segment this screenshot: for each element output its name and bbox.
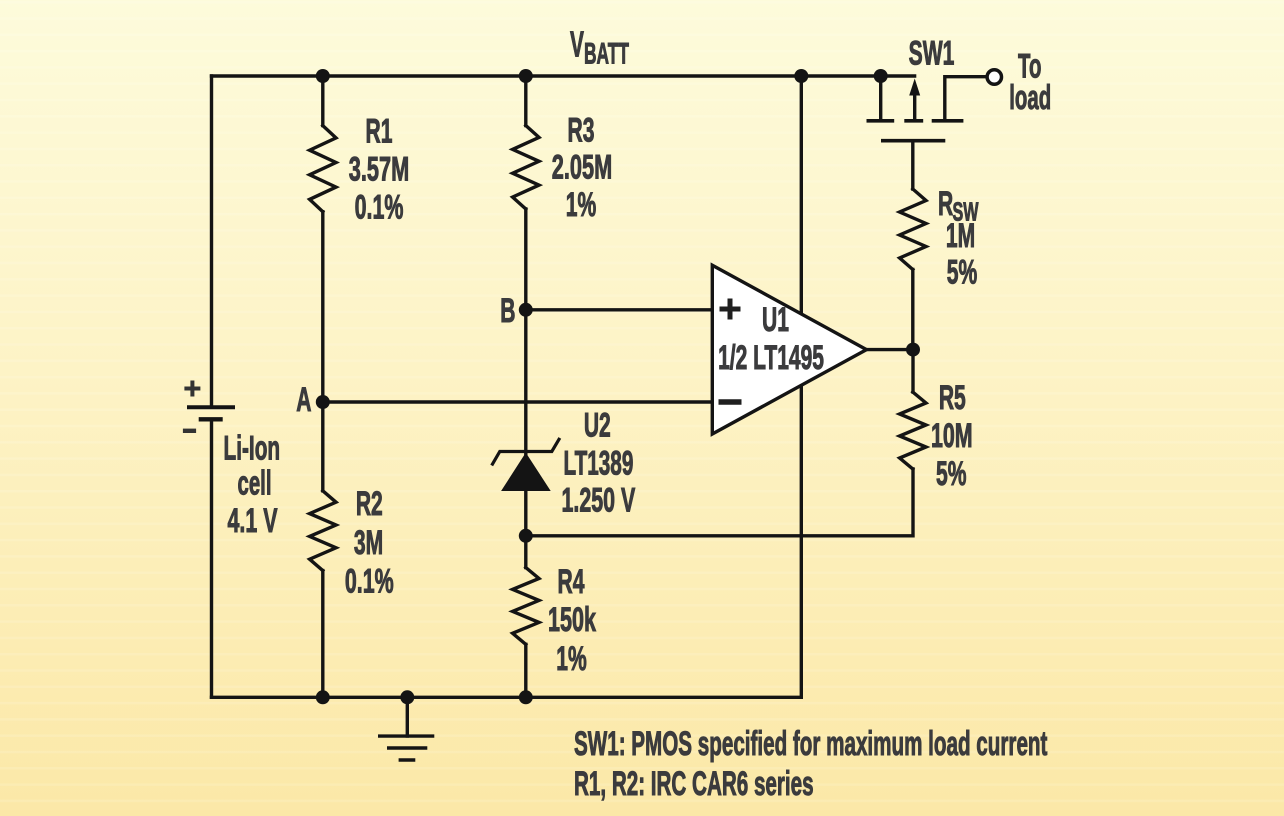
junction R4 bottom xyxy=(519,690,533,704)
resistor R1 xyxy=(310,126,336,212)
transistor SW1 source stub xyxy=(879,76,882,119)
transistor SW1 gate bar xyxy=(881,139,945,143)
resistor R2 xyxy=(310,491,336,571)
ground bar 1 xyxy=(378,734,434,737)
node B junction xyxy=(519,303,533,317)
svg-text:0.1%: 0.1% xyxy=(355,189,404,227)
svg-text:1%: 1% xyxy=(556,639,586,677)
junction SW1 source xyxy=(874,69,888,83)
op-amp - input symbol xyxy=(719,399,742,405)
battery Li-Ion cell positive plate xyxy=(187,405,235,409)
junction U2 R4 node xyxy=(519,529,533,543)
wire node B to op-amp + input xyxy=(526,308,713,311)
svg-text:0.1%: 0.1% xyxy=(345,563,394,601)
battery + sign xyxy=(184,381,200,397)
svg-text:R2: R2 xyxy=(356,484,383,522)
wire RSW to output node xyxy=(911,270,914,350)
resistor R5 xyxy=(900,392,926,469)
wire node A to op-amp - input xyxy=(323,400,713,403)
svg-text:LT1389: LT1389 xyxy=(563,444,633,481)
svg-text:2.05M: 2.05M xyxy=(552,149,612,187)
transistor SW1 drain bar xyxy=(932,119,964,123)
svg-text:R5: R5 xyxy=(939,378,966,416)
wire op-amp output xyxy=(867,348,914,351)
resistor RSW labels xyxy=(938,184,979,227)
op-amp U1 triangle xyxy=(712,265,866,434)
junction ground stub xyxy=(400,690,414,704)
wire R1 R2 column xyxy=(321,76,324,697)
svg-text:5%: 5% xyxy=(936,454,966,492)
wire left column battery top xyxy=(210,76,213,407)
battery - sign xyxy=(183,429,196,433)
wire V_BATT top rail xyxy=(212,74,915,77)
svg-text:R1, R2: IRC CAR6 series: R1, R2: IRC CAR6 series xyxy=(574,765,814,802)
svg-text:1M: 1M xyxy=(946,216,975,254)
svg-text:U2: U2 xyxy=(584,405,611,443)
ground bar 2 xyxy=(387,746,427,749)
svg-text:B: B xyxy=(500,291,515,329)
wire VBATT junction vertical xyxy=(800,76,803,697)
transistor SW1 gate lead xyxy=(911,141,914,189)
svg-text:1/2 LT1495: 1/2 LT1495 xyxy=(718,338,824,376)
svg-text:5%: 5% xyxy=(947,252,977,290)
svg-text:4.1 V: 4.1 V xyxy=(227,502,277,540)
wire left column battery bottom xyxy=(210,419,213,697)
svg-text:1%: 1% xyxy=(566,185,596,223)
wire ground rail xyxy=(212,696,802,699)
svg-text:A: A xyxy=(296,380,311,418)
junction R1 top xyxy=(316,69,330,83)
svg-text:U1: U1 xyxy=(762,300,789,338)
resistor R3 xyxy=(513,126,539,210)
junction R3 top xyxy=(519,69,533,83)
wire R3 U2 R4 column xyxy=(524,76,527,697)
svg-text:SW1: PMOS specified for maximu: SW1: PMOS specified for maximum load cur… xyxy=(574,725,1048,762)
battery negative plate xyxy=(199,417,223,421)
svg-text:3.57M: 3.57M xyxy=(349,151,409,189)
junction op-amp output xyxy=(906,343,920,357)
zener diode U2 cathode bar xyxy=(493,439,560,464)
svg-text:1.250 V: 1.250 V xyxy=(561,482,635,520)
svg-text:R1: R1 xyxy=(366,111,393,149)
wire R5 bottom to U2 node xyxy=(526,469,913,536)
junction R2 bottom xyxy=(316,690,330,704)
svg-text:cell: cell xyxy=(237,464,271,502)
svg-text:3M: 3M xyxy=(354,523,383,561)
zener diode U2 anode triangle xyxy=(502,454,550,491)
ground bar 3 xyxy=(399,758,416,761)
svg-text:R4: R4 xyxy=(558,562,585,600)
op-amp + input symbol xyxy=(720,299,741,320)
wire PMOS drain to load xyxy=(945,77,988,120)
svg-text:BATT: BATT xyxy=(584,38,629,71)
to-load label xyxy=(1009,47,1051,116)
node A junction xyxy=(316,395,330,409)
junction vertical rail top xyxy=(794,69,808,83)
svg-text:V: V xyxy=(570,25,584,65)
svg-text:10M: 10M xyxy=(931,417,973,455)
wire R5 top xyxy=(911,350,914,392)
svg-text:Li-Ion: Li-Ion xyxy=(223,428,280,467)
resistor RSW xyxy=(900,189,926,270)
transistor SW1 body arrow xyxy=(913,92,916,119)
svg-text:150k: 150k xyxy=(548,601,596,639)
svg-text:SW1: SW1 xyxy=(909,33,955,71)
net label VBATT xyxy=(570,25,629,71)
transistor SW1 source bar xyxy=(867,119,895,123)
transistor SW1 body bar xyxy=(904,119,923,123)
svg-text:load: load xyxy=(1009,79,1051,117)
resistor R4 xyxy=(513,568,539,645)
to-load terminal circle xyxy=(987,70,1001,84)
svg-text:R3: R3 xyxy=(568,110,595,148)
ground stub xyxy=(406,697,409,736)
